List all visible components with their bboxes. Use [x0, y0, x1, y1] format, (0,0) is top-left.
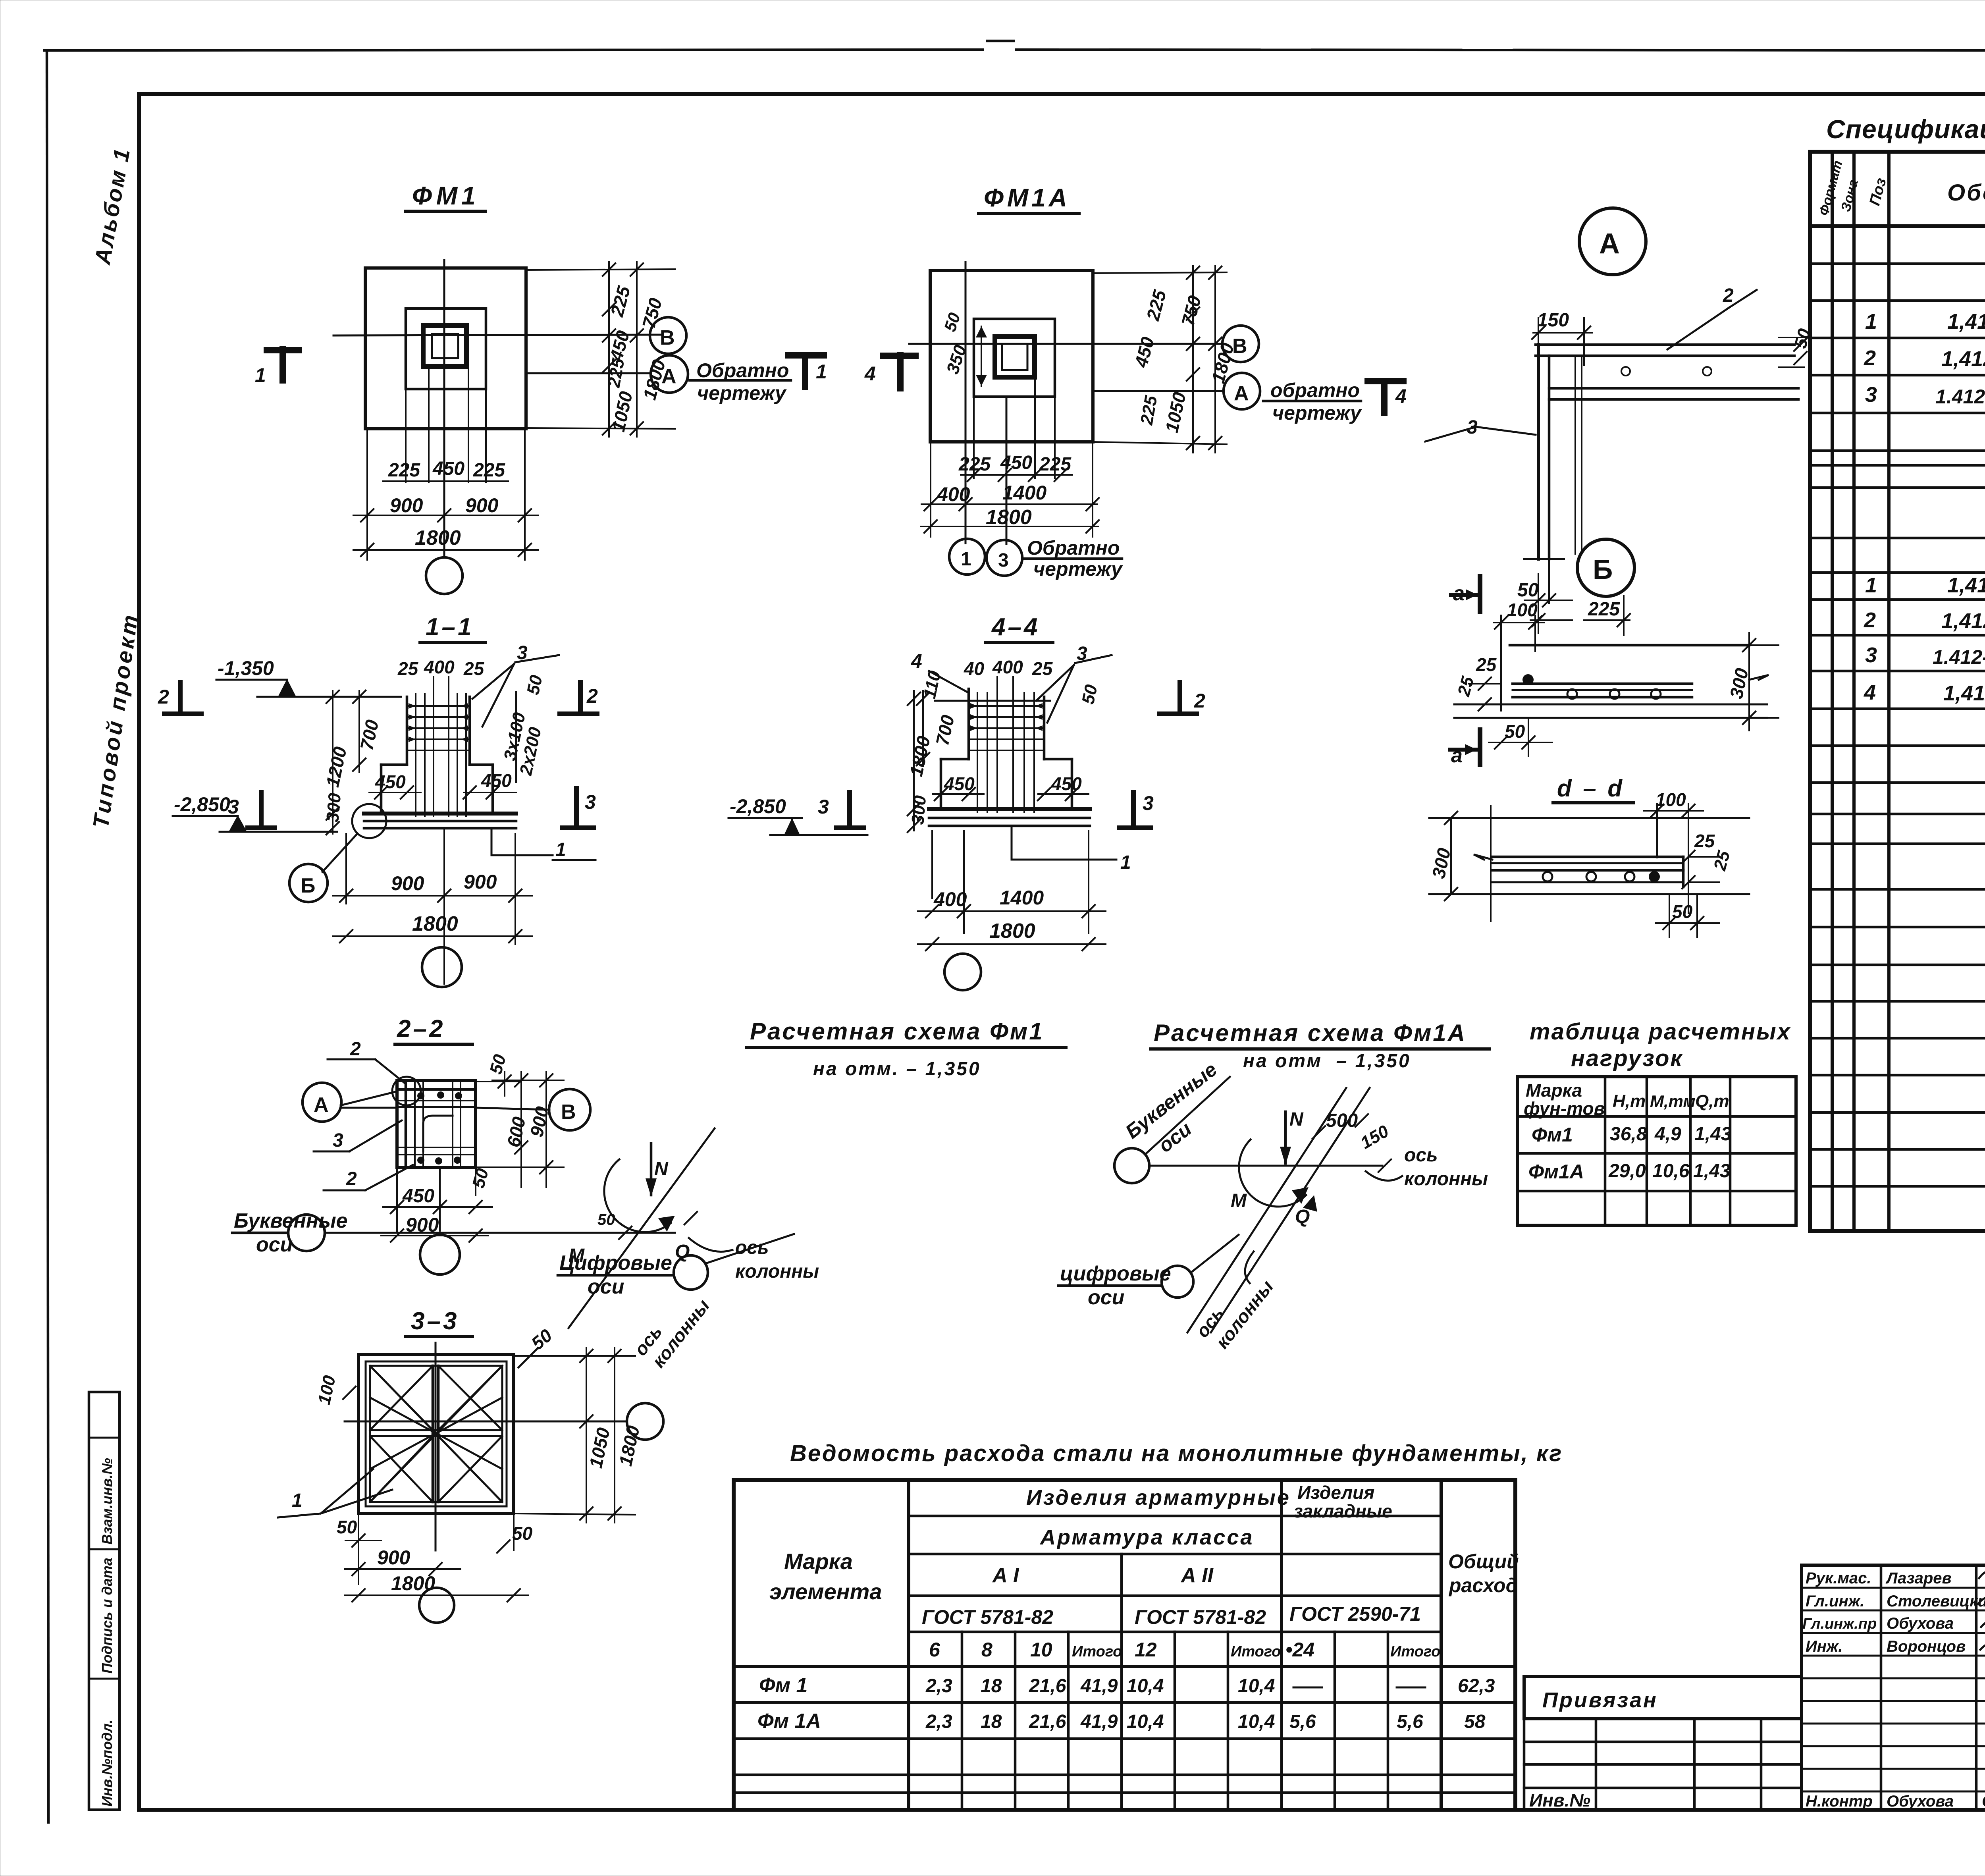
- svg-text:Фм 1: Фм 1: [759, 1674, 807, 1697]
- svg-text:225: 225: [604, 357, 628, 389]
- svg-text:1800: 1800: [906, 734, 934, 778]
- svg-text:ГОСТ 2590-71: ГОСТ 2590-71: [1289, 1603, 1421, 1625]
- svg-text:50: 50: [523, 673, 546, 697]
- svg-text:ось: ось: [1404, 1145, 1438, 1166]
- svg-text:150: 150: [1537, 310, 1569, 331]
- svg-text:225: 225: [1142, 287, 1170, 323]
- svg-text:1800: 1800: [412, 912, 458, 935]
- svg-text:Буквенные: Буквенные: [234, 1209, 348, 1232]
- svg-text:4: 4: [1864, 681, 1876, 704]
- svg-text:Гл.инж.: Гл.инж.: [1806, 1593, 1864, 1610]
- svg-text:10: 10: [1030, 1639, 1052, 1661]
- svg-text:400: 400: [424, 657, 455, 677]
- svg-text:10,6: 10,6: [1652, 1161, 1690, 1182]
- svg-text:А II: А II: [1180, 1564, 1214, 1587]
- svg-text:2: 2: [1723, 285, 1734, 306]
- svg-text:Слук: Слук: [1982, 1793, 1985, 1810]
- svg-text:ГОСТ 5781-82: ГОСТ 5781-82: [922, 1606, 1053, 1628]
- svg-text:Итого: Итого: [1072, 1643, 1122, 1660]
- svg-text:Расчетная схема Фм1А: Расчетная схема Фм1А: [1154, 1020, 1467, 1046]
- svg-text:1,43: 1,43: [1693, 1161, 1731, 1182]
- svg-text:50: 50: [940, 310, 964, 334]
- svg-text:-2,850: -2,850: [730, 795, 786, 817]
- svg-text:900: 900: [377, 1546, 410, 1569]
- svg-text:1: 1: [1120, 852, 1131, 873]
- svg-text:50: 50: [512, 1523, 533, 1544]
- svg-text:Обратно: Обратно: [696, 359, 789, 382]
- svg-text:2: 2: [350, 1039, 361, 1060]
- svg-text:ФМ1: ФМ1: [412, 181, 480, 210]
- svg-text:Н.контр: Н.контр: [1806, 1793, 1873, 1810]
- svg-text:225: 225: [1588, 599, 1620, 620]
- svg-text:фун-тов: фун-тов: [1524, 1098, 1605, 1119]
- svg-text:500: 500: [1326, 1110, 1358, 1131]
- svg-text:Альбом 1: Альбом 1: [89, 145, 135, 267]
- svg-text:21,6: 21,6: [1029, 1711, 1066, 1732]
- svg-text:50: 50: [1517, 580, 1539, 601]
- svg-text:N: N: [654, 1159, 669, 1180]
- svg-text:225: 225: [958, 454, 991, 475]
- svg-text:1400: 1400: [1000, 887, 1044, 909]
- svg-text:450: 450: [402, 1186, 434, 1207]
- svg-text:3: 3: [228, 796, 239, 818]
- svg-text:колонны: колонны: [735, 1261, 819, 1282]
- svg-text:Обухова: Обухова: [1887, 1615, 1954, 1632]
- svg-text:Марка: Марка: [784, 1549, 853, 1574]
- svg-text:Общий: Общий: [1448, 1550, 1519, 1573]
- svg-text:50: 50: [1078, 683, 1101, 706]
- svg-text:100: 100: [1507, 600, 1538, 620]
- svg-text:Фм 1А: Фм 1А: [757, 1710, 821, 1733]
- svg-text:29,0: 29,0: [1608, 1161, 1646, 1182]
- svg-text:Воронцов: Воронцов: [1887, 1638, 1966, 1655]
- svg-text:М,тм: М,тм: [1650, 1092, 1696, 1111]
- svg-text:25: 25: [1710, 848, 1734, 873]
- svg-text:оси: оси: [1088, 1286, 1124, 1309]
- svg-text:5,6: 5,6: [1289, 1711, 1316, 1732]
- svg-text:50: 50: [597, 1211, 615, 1228]
- svg-text:3: 3: [333, 1130, 343, 1151]
- svg-text:25: 25: [397, 658, 419, 679]
- svg-text:-2,850: -2,850: [174, 793, 230, 816]
- svg-text:3: 3: [1865, 643, 1877, 667]
- svg-text:450: 450: [375, 771, 406, 792]
- svg-text:нагрузок: нагрузок: [1571, 1045, 1683, 1071]
- svg-text:чертежу: чертежу: [1033, 558, 1123, 580]
- svg-text:элемента: элемента: [769, 1579, 882, 1604]
- svg-text:ГОСТ 5781-82: ГОСТ 5781-82: [1135, 1606, 1266, 1628]
- svg-text:900: 900: [391, 872, 424, 895]
- svg-text:-1,350: -1,350: [218, 657, 274, 679]
- svg-text:1800: 1800: [615, 1424, 644, 1468]
- svg-text:цифровые: цифровые: [1060, 1262, 1171, 1285]
- svg-text:12: 12: [1135, 1639, 1157, 1661]
- svg-text:А: А: [314, 1093, 329, 1116]
- svg-text:450: 450: [1000, 452, 1032, 473]
- svg-text:1–1: 1–1: [426, 613, 474, 641]
- svg-text:оси: оси: [1154, 1118, 1196, 1157]
- svg-text:Обратно: Обратно: [1027, 537, 1120, 559]
- svg-text:Марка: Марка: [1526, 1080, 1582, 1101]
- svg-text:10,4: 10,4: [1127, 1711, 1164, 1732]
- svg-text:10,4: 10,4: [1127, 1675, 1164, 1697]
- svg-text:на отм – 1,350: на отм – 1,350: [1243, 1051, 1411, 1072]
- svg-text:4–4: 4–4: [991, 613, 1040, 641]
- svg-text:400: 400: [933, 888, 967, 910]
- svg-text:1: 1: [555, 839, 566, 860]
- svg-text:1800: 1800: [986, 506, 1032, 529]
- svg-text:3: 3: [585, 791, 596, 813]
- svg-text:Подпись и дата: Подпись и дата: [99, 1558, 115, 1674]
- svg-text:1,43: 1,43: [1694, 1124, 1732, 1145]
- svg-text:Инв.№подл.: Инв.№подл.: [99, 1720, 115, 1807]
- svg-text:Б: Б: [1593, 554, 1613, 585]
- svg-text:1,412-1/77 В 3 л.19: 1,412-1/77 В 3 л.19: [1941, 347, 1985, 371]
- svg-text:1,412-1/77 В.3 л.19: 1,412-1/77 В.3 л.19: [1941, 609, 1985, 633]
- svg-text:225: 225: [1137, 394, 1161, 426]
- svg-text:400: 400: [937, 483, 970, 505]
- svg-text:Типовой проект: Типовой проект: [88, 611, 143, 829]
- svg-text:таблица расчетных: таблица расчетных: [1530, 1019, 1791, 1045]
- svg-text:Рук.мас.: Рук.мас.: [1806, 1569, 1871, 1587]
- svg-text:225: 225: [606, 283, 634, 319]
- svg-text:2: 2: [346, 1168, 357, 1190]
- svg-text:Q: Q: [1295, 1206, 1310, 1227]
- svg-text:1.412-1/77, вып. 3 л.Б: 1.412-1/77, вып. 3 л.Б: [1935, 386, 1985, 408]
- svg-text:750: 750: [638, 296, 666, 331]
- svg-text:2: 2: [1864, 346, 1876, 370]
- svg-text:900: 900: [464, 871, 497, 893]
- svg-text:3: 3: [818, 796, 829, 818]
- svg-text:8: 8: [981, 1639, 992, 1661]
- svg-text:В: В: [660, 326, 675, 349]
- svg-text:Фм1А: Фм1А: [1528, 1161, 1584, 1183]
- svg-text:4: 4: [1395, 385, 1407, 407]
- svg-text:2,3: 2,3: [925, 1711, 952, 1732]
- svg-text:100: 100: [314, 1374, 339, 1407]
- svg-text:1400: 1400: [1002, 482, 1046, 504]
- svg-text:18: 18: [981, 1675, 1002, 1697]
- svg-text:3: 3: [1143, 792, 1154, 814]
- svg-text:2,3: 2,3: [925, 1675, 952, 1697]
- svg-text:1800: 1800: [989, 920, 1035, 943]
- svg-text:5,6: 5,6: [1397, 1711, 1423, 1732]
- svg-text:Н,т: Н,т: [1613, 1091, 1646, 1111]
- svg-text:А: А: [1234, 382, 1249, 405]
- svg-text:6: 6: [929, 1639, 940, 1661]
- svg-text:Обухова: Обухова: [1887, 1793, 1954, 1810]
- svg-text:1050: 1050: [585, 1426, 614, 1470]
- svg-text:чертежу: чертежу: [697, 382, 787, 404]
- svg-text:2: 2: [158, 686, 169, 708]
- svg-text:Цифровые: Цифровые: [559, 1251, 672, 1274]
- svg-text:Поз: Поз: [1866, 176, 1890, 207]
- svg-text:2: 2: [1864, 608, 1876, 632]
- svg-text:1800: 1800: [415, 526, 461, 549]
- svg-text:58: 58: [1464, 1711, 1486, 1732]
- svg-text:50: 50: [1505, 721, 1525, 742]
- svg-text:1050: 1050: [1161, 390, 1190, 434]
- svg-text:чертежу: чертежу: [1272, 402, 1362, 424]
- svg-text:225: 225: [1039, 454, 1072, 475]
- svg-text:N: N: [1289, 1109, 1304, 1130]
- svg-text:Привязан: Привязан: [1542, 1688, 1658, 1712]
- svg-text:1.412-1/77, вып. 3, л.Б: 1.412-1/77, вып. 3, л.Б: [1933, 646, 1985, 668]
- svg-text:1: 1: [292, 1490, 303, 1511]
- svg-text:1050: 1050: [608, 389, 636, 434]
- svg-text:Ведомость расхода стали на мон: Ведомость расхода стали на монолитные фу…: [790, 1440, 1563, 1466]
- svg-text:450: 450: [1130, 335, 1158, 370]
- svg-text:1: 1: [961, 549, 971, 570]
- svg-text:2: 2: [586, 685, 598, 707]
- svg-text:900: 900: [465, 494, 499, 517]
- svg-text:700: 700: [932, 713, 958, 747]
- svg-text:1: 1: [816, 361, 827, 383]
- svg-text:Гл.инж.пр: Гл.инж.пр: [1802, 1616, 1877, 1632]
- svg-text:4,9: 4,9: [1654, 1124, 1681, 1145]
- svg-text:М: М: [1231, 1190, 1247, 1211]
- svg-text:225: 225: [388, 460, 420, 481]
- svg-text:А I: А I: [992, 1564, 1019, 1587]
- svg-text:21,6: 21,6: [1029, 1675, 1066, 1697]
- svg-text:Итого: Итого: [1231, 1643, 1281, 1660]
- svg-text:d – d: d – d: [1557, 775, 1625, 802]
- svg-text:150: 150: [1357, 1121, 1393, 1153]
- svg-text:300: 300: [1726, 666, 1752, 700]
- svg-text:25: 25: [1694, 831, 1715, 851]
- svg-text:на отм. – 1,350: на отм. – 1,350: [813, 1059, 981, 1080]
- svg-text:225: 225: [473, 460, 505, 481]
- svg-text:300: 300: [908, 794, 930, 825]
- svg-text:Итого: Итого: [1390, 1643, 1440, 1660]
- svg-text:25: 25: [1032, 658, 1053, 679]
- svg-text:450: 450: [1051, 773, 1082, 794]
- svg-text:4: 4: [911, 650, 922, 672]
- svg-text:18: 18: [981, 1711, 1002, 1732]
- svg-text:Инж.: Инж.: [1806, 1638, 1843, 1655]
- svg-text:900: 900: [390, 494, 423, 517]
- svg-text:расход: расход: [1448, 1574, 1518, 1596]
- svg-text:ФМ1А: ФМ1А: [984, 183, 1070, 212]
- svg-text:3: 3: [998, 550, 1009, 571]
- svg-text:25: 25: [1454, 674, 1478, 698]
- svg-text:25: 25: [1476, 654, 1497, 675]
- svg-text:1,410-2: 1,410-2: [1947, 310, 1985, 334]
- svg-text:Взам.инв.№: Взам.инв.№: [99, 1458, 115, 1544]
- svg-text:Изделия: Изделия: [1297, 1482, 1374, 1503]
- svg-text:1200: 1200: [322, 745, 351, 789]
- svg-text:Зона: Зона: [1838, 178, 1861, 213]
- svg-text:1800: 1800: [639, 357, 669, 402]
- svg-text:50: 50: [527, 1325, 556, 1354]
- svg-text:•24: •24: [1285, 1639, 1314, 1661]
- svg-text:300: 300: [323, 792, 345, 823]
- svg-text:Арматура класса: Арматура класса: [1039, 1525, 1254, 1549]
- svg-text:2–2: 2–2: [397, 1015, 445, 1043]
- svg-text:оси: оси: [256, 1233, 293, 1256]
- svg-text:Спецификация элементов монолит: Спецификация элементов монолитных фундам…: [1826, 114, 1985, 144]
- svg-text:450: 450: [944, 773, 975, 794]
- svg-text:750: 750: [1177, 293, 1205, 328]
- svg-text:10,4: 10,4: [1238, 1675, 1275, 1697]
- svg-text:1,410-2: 1,410-2: [1947, 573, 1985, 597]
- svg-text:а: а: [1451, 744, 1463, 767]
- svg-text:Изделия арматурные: Изделия арматурные: [1026, 1486, 1291, 1510]
- svg-text:36,8: 36,8: [1610, 1124, 1647, 1145]
- svg-text:обратно: обратно: [1270, 379, 1360, 401]
- svg-text:450: 450: [432, 458, 464, 479]
- svg-text:Инв.№: Инв.№: [1529, 1790, 1590, 1810]
- svg-text:колонны: колонны: [1404, 1168, 1488, 1190]
- svg-text:40: 40: [964, 658, 985, 679]
- svg-text:1: 1: [1865, 310, 1877, 334]
- svg-text:41,9: 41,9: [1080, 1675, 1118, 1697]
- svg-text:400: 400: [992, 657, 1023, 677]
- svg-text:Расчетная схема Фм1: Расчетная схема Фм1: [750, 1018, 1044, 1045]
- svg-text:50: 50: [337, 1517, 357, 1537]
- svg-text:1,412,1-4 л. 29: 1,412,1-4 л. 29: [1943, 681, 1985, 705]
- svg-text:41,9: 41,9: [1080, 1711, 1118, 1732]
- svg-text:оси: оси: [588, 1275, 624, 1298]
- svg-text:закладные: закладные: [1293, 1501, 1392, 1521]
- svg-text:Q,т: Q,т: [1695, 1091, 1729, 1111]
- svg-text:3: 3: [1865, 383, 1877, 407]
- svg-text:3–3: 3–3: [411, 1307, 459, 1335]
- svg-text:Лазарев: Лазарев: [1885, 1569, 1952, 1587]
- svg-text:50: 50: [468, 1166, 492, 1190]
- svg-text:25: 25: [463, 658, 485, 679]
- svg-text:В: В: [561, 1101, 576, 1124]
- svg-text:1: 1: [1865, 573, 1877, 597]
- svg-text:Б: Б: [301, 874, 315, 897]
- svg-text:62,3: 62,3: [1458, 1675, 1495, 1697]
- svg-text:2: 2: [1194, 690, 1205, 712]
- svg-text:10,4: 10,4: [1238, 1711, 1275, 1732]
- svg-text:4: 4: [864, 362, 876, 385]
- svg-text:Столевицкий: Столевицкий: [1887, 1593, 1985, 1610]
- svg-text:50: 50: [486, 1052, 510, 1076]
- svg-text:Фм1: Фм1: [1532, 1124, 1573, 1146]
- svg-text:1: 1: [255, 364, 266, 386]
- svg-text:Обозначение: Обозначение: [1947, 180, 1985, 206]
- svg-text:А: А: [1599, 228, 1620, 260]
- svg-text:50: 50: [1672, 901, 1693, 922]
